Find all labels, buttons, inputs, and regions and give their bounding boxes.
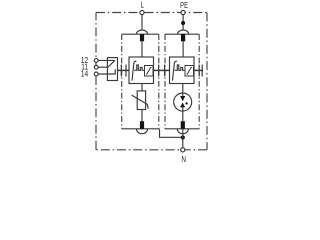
terminal PE [181,10,185,14]
terminal 11 [94,65,98,69]
svg-text:PE: PE [180,0,188,10]
terminal 12 [94,59,98,63]
wire varistor to bottom disconnector [141,110,143,122]
wire disconnector to element box module 1 [141,41,143,57]
FM contact wire 14 (with open contact leg) [98,69,115,74]
wire L terminal down to disconnector [141,15,143,31]
terminal N [181,148,185,152]
svg-text:14: 14 [81,69,88,79]
mechanical link / plug contact: base to module 1 [118,65,130,77]
disconnection element box module 1 [129,57,154,84]
protection module 1 housing (dashed box with solid top/bottom rails) [122,34,159,129]
thermal disconnector module 2 bottom (element + arc bypass) [177,121,188,134]
svg-text:L: L [140,1,143,10]
FM changeover contact box [107,58,117,81]
spark gap (gas discharge tube) module 2 [174,93,192,111]
svg-text:N: N [181,154,186,164]
disconnection element box module 2 [170,57,195,84]
protection module 2 housing (dashed box with solid top/bottom rails) [165,34,199,129]
wire spark gap to bottom disconnector [182,107,184,121]
wire disconnector to element box module 2 [182,41,184,57]
wire module 2 down to N terminal [182,129,184,148]
device enclosure border (dash-dot) [96,13,207,150]
junction dot on PE wire [181,21,185,25]
terminal 14 [94,72,98,76]
varistor module 1 [132,91,149,110]
mechanical link / plug contact: module 1 to module 2 [154,65,170,77]
wire element box to varistor [141,84,143,91]
thermal disconnector module 1 bottom (element + arc bypass) [136,121,147,134]
thermal disconnector module 1 top (arc bypass + element) [136,30,147,41]
FM contact wire 11 [98,66,107,68]
base wiring: module 1 rail down to N rail [160,129,183,138]
junction dot on N wire [181,135,185,139]
wire PE terminal down [182,15,184,31]
mechanical link / plug contact: module 2 to base right [194,65,204,77]
FM contact wire 12 [98,59,114,61]
wire element box to spark gap [182,84,184,97]
thermal disconnector module 2 top (arc bypass + element) [178,30,189,41]
terminal L [140,10,144,14]
